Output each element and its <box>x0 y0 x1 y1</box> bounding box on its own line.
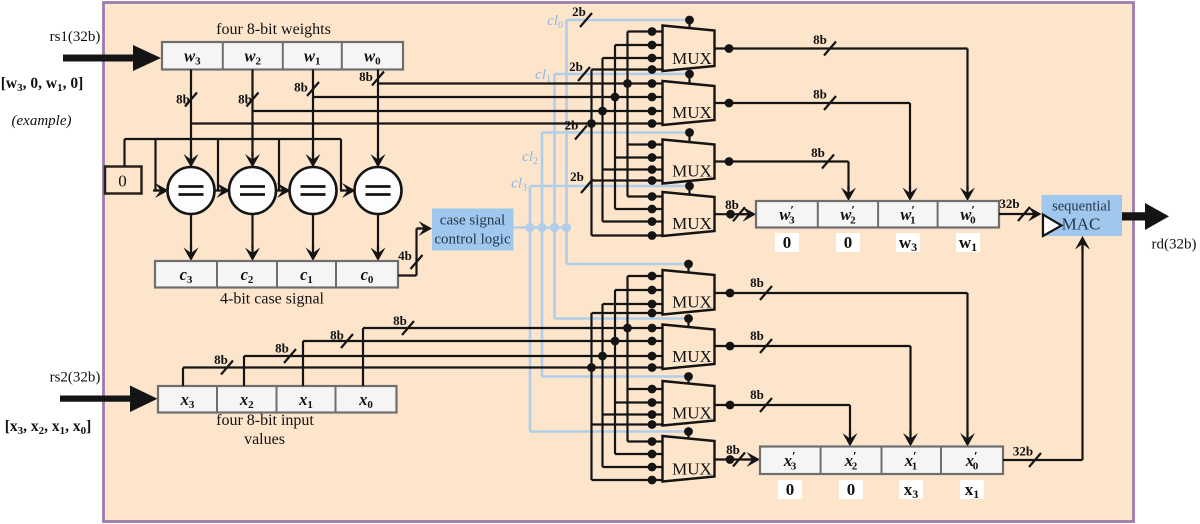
mux U7 <box>663 381 715 426</box>
svg-text:MUX: MUX <box>672 214 712 233</box>
svg-text:control logic: control logic <box>434 232 511 248</box>
wire mux U6 output to x-prime1 <box>715 345 911 347</box>
routing vertical x3 bottom nest <box>590 313 592 480</box>
routing vertical x2 bottom nest <box>601 304 603 467</box>
zero drop to comparator c2 <box>217 139 219 191</box>
svg-text:x′0: x′0 <box>965 449 979 473</box>
wire w2 bus to muxes <box>253 110 653 112</box>
mux U2 select <box>685 70 694 79</box>
svg-text:2b: 2b <box>570 169 584 184</box>
wire comparator c0 to case register <box>377 214 379 250</box>
wire comparator c3 to case register <box>190 214 192 250</box>
wire comparator c2 to case register <box>251 214 253 250</box>
svg-text:x′2: x′2 <box>844 449 858 473</box>
svg-text:case signal: case signal <box>440 213 505 229</box>
svg-text:4b: 4b <box>398 248 412 263</box>
svg-text:8b: 8b <box>330 328 344 343</box>
routing vertical w1 top nest <box>614 45 616 209</box>
svg-text:MUX: MUX <box>672 460 712 479</box>
wire case register to control logic <box>398 274 417 276</box>
svg-text:w′0: w′0 <box>960 203 976 227</box>
input stubs mux U1 <box>628 30 664 32</box>
routing vertical w2 top nest <box>601 58 603 222</box>
net cl0 wire <box>565 20 568 264</box>
sequential MAC unit <box>1042 195 1123 236</box>
svg-text:rs2(32b): rs2(32b) <box>50 370 101 386</box>
mux U2 <box>663 81 715 125</box>
svg-text:8b: 8b <box>294 80 308 95</box>
input stubs mux U6 <box>652 327 663 329</box>
input junction dots top muxes <box>648 27 657 36</box>
svg-text:8b: 8b <box>750 275 764 290</box>
svg-text:MAC: MAC <box>1062 215 1101 234</box>
junction dots on x buses <box>623 324 632 333</box>
svg-text:four 8-bit weights: four 8-bit weights <box>216 21 331 38</box>
svg-text:8b: 8b <box>725 197 739 212</box>
svg-text:rs1(32b): rs1(32b) <box>50 29 101 45</box>
svg-text:four 8-bit input: four 8-bit input <box>216 412 314 429</box>
svg-text:0: 0 <box>118 172 127 191</box>
mux U1 <box>663 26 715 72</box>
wire x0 bus to muxes <box>362 328 364 386</box>
wire mux U5 output to x-prime0 <box>715 292 968 294</box>
wire mux U2 output to w-prime1 <box>715 102 911 104</box>
wire x1 bus to muxes <box>302 341 304 386</box>
junction dots on cl bundle <box>525 223 534 232</box>
routing vertical x1 bottom nest <box>614 290 616 454</box>
mux U6 <box>663 325 715 370</box>
mux U3 <box>663 140 715 184</box>
mux U5 <box>663 270 715 315</box>
labels under w-prime register <box>775 233 799 252</box>
wire mux U3 output to w-prime2 <box>715 160 849 162</box>
routing vertical w0 top nest <box>626 32 628 197</box>
mux U1 select <box>685 16 694 25</box>
svg-text:sequential: sequential <box>1052 199 1111 215</box>
svg-text:8b: 8b <box>214 352 228 367</box>
input stubs mux U2 <box>652 82 663 84</box>
comparator c2 (equals zero) <box>229 167 276 214</box>
svg-text:rd(32b): rd(32b) <box>1152 237 1197 253</box>
svg-text:8b: 8b <box>275 341 289 356</box>
svg-text:MUX: MUX <box>672 49 712 68</box>
svg-text:(example): (example) <box>12 113 72 129</box>
svg-text:w′2: w′2 <box>840 203 856 227</box>
svg-text:[w3, 0, w1, 0]: [w3, 0, w1, 0] <box>1 75 83 94</box>
svg-text:MUX: MUX <box>672 103 712 122</box>
register weights w3 w2 w1 w0 <box>162 42 403 70</box>
comparator c1 (equals zero) <box>290 167 337 214</box>
wire x-prime register to MAC <box>1003 459 1083 461</box>
svg-text:MUX: MUX <box>672 162 712 181</box>
comparator c3 (equals zero) <box>168 167 215 214</box>
svg-text:MUX: MUX <box>672 293 712 312</box>
net cl1 wire <box>553 74 556 319</box>
svg-text:0: 0 <box>783 233 792 252</box>
zero drop to comparator c0 <box>340 139 342 191</box>
wire w-prime register to MAC <box>999 213 1031 215</box>
svg-text:w′1: w′1 <box>900 203 915 227</box>
routing vertical x0 bottom nest <box>626 276 628 442</box>
svg-text:0: 0 <box>786 480 795 499</box>
mux U4 <box>663 192 715 236</box>
svg-text:8b: 8b <box>359 69 373 84</box>
wire w1 to comparator <box>312 70 314 158</box>
svg-text:8b: 8b <box>813 32 827 47</box>
input stubs mux U3 <box>628 143 664 145</box>
wire w0 to comparator <box>377 70 379 158</box>
wire mux U7 output to x-prime2 <box>715 404 851 406</box>
wire w2 to comparator <box>251 70 253 158</box>
comparator c0 (equals zero) <box>355 167 402 214</box>
svg-text:MUX: MUX <box>672 347 712 366</box>
constant 0 box <box>105 167 142 194</box>
mux U5 select <box>684 260 693 269</box>
port rd(32b) output arrow <box>1122 203 1169 230</box>
wire x2 bus to muxes <box>243 356 245 386</box>
svg-text:2b: 2b <box>569 59 583 74</box>
mux U3 select <box>685 128 694 137</box>
svg-text:x′1: x′1 <box>904 449 917 473</box>
svg-text:4-bit case signal: 4-bit case signal <box>220 291 325 308</box>
svg-text:2b: 2b <box>565 118 579 133</box>
svg-text:8b: 8b <box>813 87 827 102</box>
port rs2(32b) input arrow <box>60 386 158 413</box>
svg-text:8b: 8b <box>726 442 740 457</box>
svg-text:8b: 8b <box>811 145 825 160</box>
register w-prime3 w-prime2 w-prime1 w-prime0 <box>756 201 999 228</box>
svg-text:0: 0 <box>847 480 856 499</box>
input junction dots bottom muxes <box>648 272 657 281</box>
svg-text:8b: 8b <box>750 328 764 343</box>
register inputs x3 x2 x1 x0 <box>158 386 397 413</box>
svg-text:32b: 32b <box>1013 444 1033 459</box>
routing vertical w3 top nest <box>590 70 592 236</box>
wire mux U1 output to w-prime0 <box>715 47 968 49</box>
input stubs mux U5 <box>628 275 664 277</box>
mux U7 select <box>684 372 693 381</box>
input stubs mux U7 <box>628 388 664 390</box>
svg-text:x′3: x′3 <box>783 449 797 473</box>
input stubs mux U8 <box>628 440 664 442</box>
wire w0 bus to muxes <box>378 82 652 84</box>
svg-text:8b: 8b <box>750 387 764 402</box>
port rs1(32b) input arrow <box>63 45 161 71</box>
net cl3 wire <box>529 186 532 432</box>
clock triangle of MAC <box>1043 215 1062 237</box>
wire w3 bus to muxes <box>191 122 652 124</box>
svg-text:0: 0 <box>844 233 853 252</box>
mux U4 select <box>685 182 694 191</box>
case signal control logic box <box>432 209 514 251</box>
svg-text:32b: 32b <box>999 196 1019 211</box>
svg-text:8b: 8b <box>393 313 407 328</box>
junction dots on w buses <box>623 79 632 88</box>
mux U6 select <box>684 314 693 323</box>
svg-text:values: values <box>244 431 285 448</box>
register case signal c3 c2 c1 c0 <box>155 261 398 288</box>
svg-text:2b: 2b <box>572 4 586 19</box>
zero drop to comparator c3 <box>154 139 156 191</box>
svg-text:w′3: w′3 <box>779 203 795 227</box>
wire x3 bus to muxes <box>182 368 184 387</box>
mux U8 <box>663 436 715 482</box>
labels under x-prime register <box>778 480 802 499</box>
wire w3 to comparator <box>190 70 192 158</box>
zero drop to comparator c1 <box>278 139 280 191</box>
wire w1 bus to muxes <box>313 96 652 98</box>
input stubs mux U4 <box>628 195 664 197</box>
cl bundle wire from control logic <box>514 226 571 229</box>
net cl2 wire <box>541 133 544 377</box>
register x-prime3 x-prime2 x-prime1 x-prime0 <box>760 447 1003 475</box>
svg-text:MUX: MUX <box>672 404 712 423</box>
wire mux U4 output to w-prime3 <box>715 213 747 215</box>
wire comparator c1 to case register <box>312 214 314 250</box>
mux U8 select <box>684 427 693 436</box>
zero broadcast rail <box>123 139 125 167</box>
wire mux U8 output to x-prime3 <box>715 458 751 460</box>
